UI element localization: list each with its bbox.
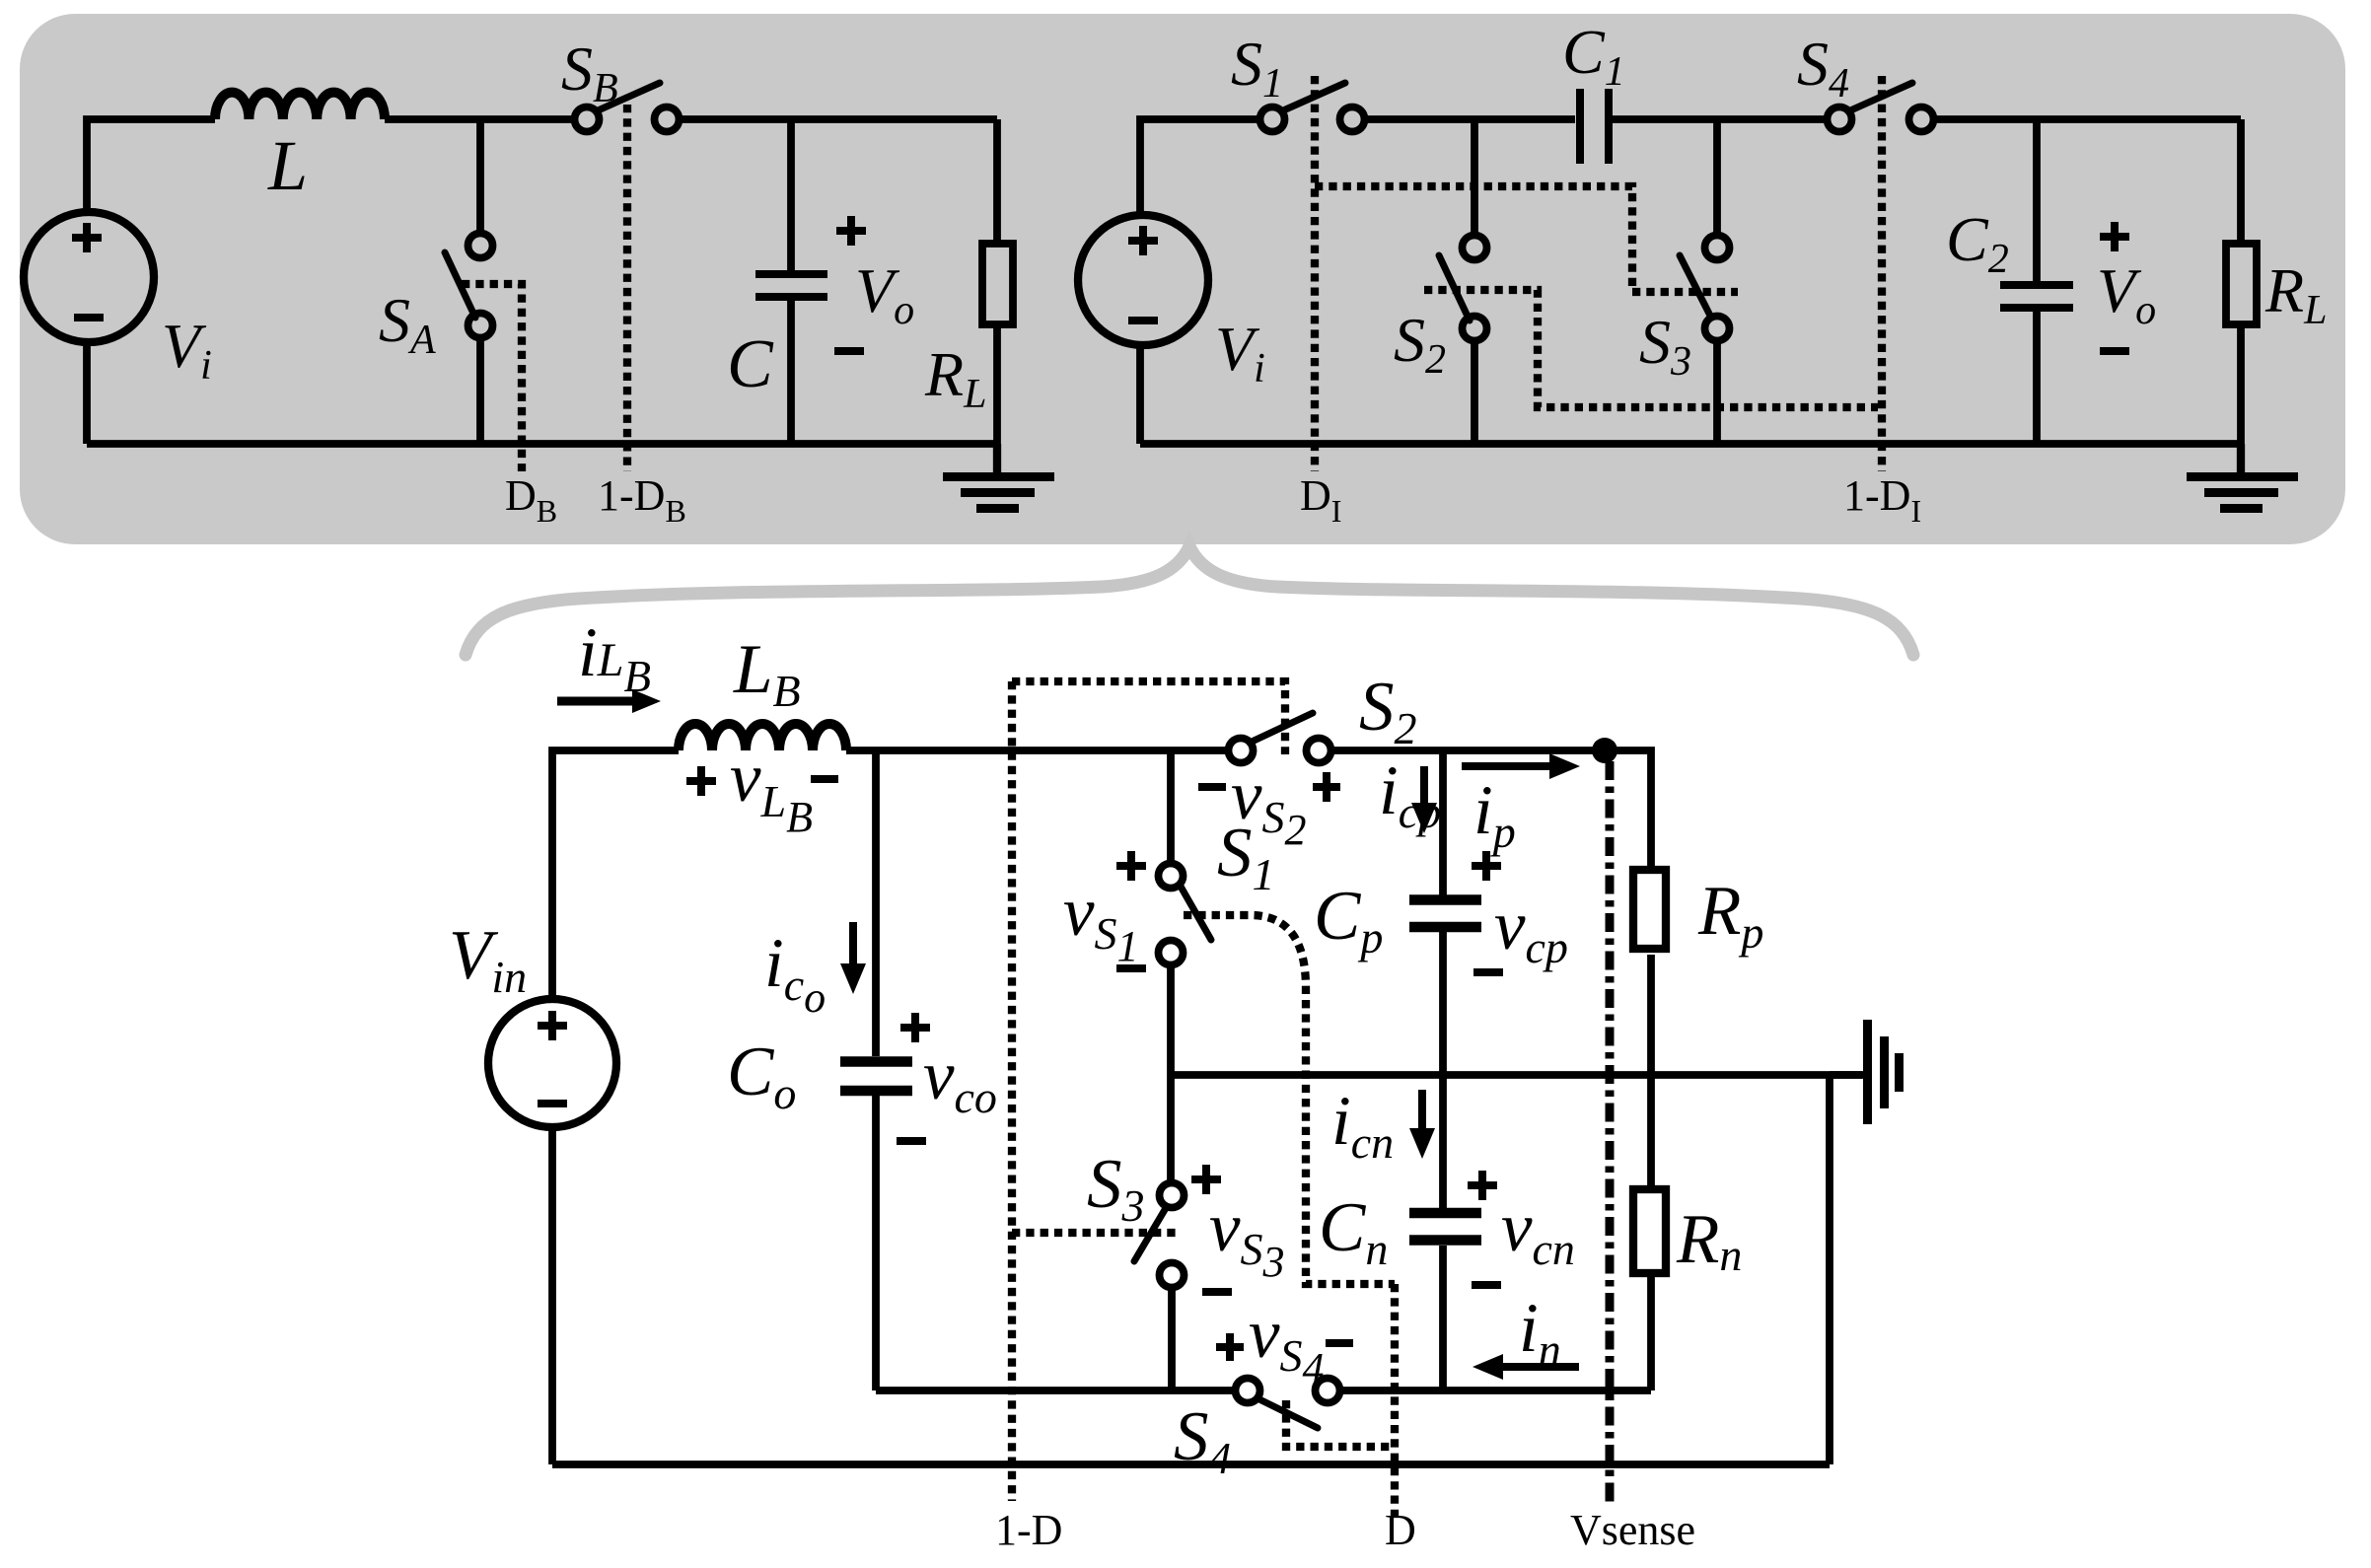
resistor RL right <box>2226 119 2257 444</box>
minus Vo left <box>834 347 864 355</box>
ground bottom circuit <box>1830 1020 1904 1124</box>
voltage source Vin <box>488 999 616 1127</box>
switch S1 bottom <box>1159 864 1212 965</box>
wire Cp branch top <box>1439 750 1447 895</box>
capacitor C2 <box>2000 285 2073 308</box>
svg-text:ico: ico <box>764 925 826 1022</box>
wire S1 branch top <box>1167 750 1175 863</box>
wire C2 branch bottom <box>2033 312 2041 444</box>
svg-text:ip: ip <box>1473 772 1516 857</box>
label -vS2+ <box>1198 757 1340 854</box>
svg-text:LB: LB <box>733 631 801 716</box>
dotted line 1-DB <box>623 105 631 471</box>
brace <box>466 546 1913 655</box>
wire S2 branch top <box>1471 119 1478 235</box>
switch S4 <box>1828 83 1934 132</box>
minus vS3 <box>1202 1288 1232 1296</box>
svg-text:Rn: Rn <box>1676 1201 1742 1280</box>
wire Cn branch top <box>1439 1075 1447 1209</box>
svg-text:in: in <box>1519 1290 1561 1375</box>
minus Vo right <box>2100 347 2129 355</box>
svg-text:Rp: Rp <box>1697 873 1763 958</box>
capacitor Co <box>840 1062 912 1092</box>
wire C branch top <box>787 119 795 270</box>
wire top LB to S2 <box>846 747 1229 754</box>
capacitor C1 <box>1580 89 1609 164</box>
svg-text:S2: S2 <box>1359 669 1417 753</box>
switch S3 <box>1680 236 1730 341</box>
svg-text:vco: vco <box>923 1037 997 1122</box>
arrow ip <box>1462 753 1580 779</box>
dotted control DB <box>462 284 522 471</box>
wire right source loop <box>1140 119 1260 444</box>
wire SB to RL <box>681 115 997 123</box>
svg-text:Vsense: Vsense <box>1570 1506 1695 1554</box>
minus vS1 <box>1116 964 1146 972</box>
inductor LB <box>679 724 846 750</box>
svg-text:icp: icp <box>1379 752 1441 837</box>
switch S2 <box>1439 236 1487 341</box>
wire Co branch bottom <box>872 1095 880 1390</box>
wire Vin left loop <box>552 750 679 1464</box>
svg-text:Vin: Vin <box>449 917 527 1002</box>
resistor Rn <box>1633 1075 1666 1390</box>
dotted S3 control <box>1012 1229 1180 1237</box>
plus vLB <box>686 766 716 796</box>
dotted control S2 path <box>1424 290 1878 407</box>
switch S2 bottom <box>1229 713 1331 763</box>
svg-text:L: L <box>267 126 308 205</box>
svg-text:D: D <box>1385 1506 1416 1554</box>
wire Co branch top <box>872 750 880 1056</box>
wire S3 branch top <box>1713 119 1721 235</box>
dotted line D <box>1391 1284 1399 1519</box>
minus vLB <box>811 775 838 783</box>
dotted line DI <box>1311 76 1319 471</box>
capacitor Cn <box>1409 1213 1481 1241</box>
capacitor Cp <box>1409 900 1481 928</box>
wire inductor to SB <box>385 115 573 123</box>
gray panel <box>20 14 2345 544</box>
wire S4 to RL right <box>1934 115 2241 123</box>
plus vcn <box>1468 1171 1497 1200</box>
voltage source Vi right <box>1078 215 1208 345</box>
switch S4 bottom <box>1236 1379 1340 1429</box>
bottom wire left circuit <box>87 440 997 448</box>
dotted S4 control <box>1286 1400 1395 1447</box>
wire Cn branch bottom <box>1439 1246 1447 1390</box>
wire Cp branch bottom <box>1439 932 1447 1075</box>
svg-text:Co: Co <box>727 1033 796 1118</box>
wire left loop <box>87 119 215 444</box>
arrow icn <box>1409 1090 1435 1159</box>
dashdot Vsense <box>1606 761 1615 1503</box>
dotted line 1-DI <box>1878 76 1886 471</box>
svg-text:vLB: vLB <box>730 740 813 841</box>
minus vco <box>897 1137 926 1145</box>
wire S2 to corner <box>1330 750 1651 866</box>
wire C1 to S4 <box>1612 115 1828 123</box>
mid wire <box>1171 1071 1862 1079</box>
plus vcp <box>1472 851 1501 881</box>
dotted line 1-D <box>1008 681 1016 1501</box>
inductor L <box>215 93 385 119</box>
wire C2 branch top <box>2033 119 2041 281</box>
label +vS4- <box>1216 1296 1353 1392</box>
wire bottom row <box>876 1387 1651 1394</box>
svg-text:C: C <box>727 326 774 402</box>
plus Vo left <box>836 216 866 246</box>
wire right loop <box>552 1075 1830 1464</box>
plus vS1 <box>1116 851 1146 881</box>
wire S3 branch bottom <box>1713 342 1721 444</box>
plus Vo right <box>2100 222 2129 251</box>
svg-text:S4: S4 <box>1174 1398 1232 1483</box>
bottom wire right circuit <box>1140 440 2241 448</box>
wire S2 branch bottom <box>1471 342 1478 444</box>
arrow icp <box>1411 766 1437 833</box>
plus vS3 <box>1191 1165 1221 1194</box>
svg-text:Cn: Cn <box>1319 1189 1388 1274</box>
wire SA branch <box>476 119 484 444</box>
svg-text:1-D: 1-D <box>995 1506 1062 1554</box>
svg-text:vS3: vS3 <box>1209 1189 1285 1286</box>
ground left circuit <box>943 444 1054 513</box>
switch S3 bottom <box>1134 1183 1185 1288</box>
svg-text:vS4: vS4 <box>1249 1296 1325 1392</box>
svg-text:S3: S3 <box>1087 1146 1145 1231</box>
switch SB <box>575 83 680 132</box>
switch S1 <box>1260 83 1365 132</box>
wire S1 to C1 <box>1365 115 1575 123</box>
wire S1 to S3 vertical <box>1167 964 1175 1183</box>
capacitor C <box>755 274 827 297</box>
wire C branch bottom <box>787 301 795 444</box>
arrow iLB <box>557 689 661 713</box>
dotted 1-D box <box>1012 681 1285 754</box>
plus vco <box>900 1013 930 1042</box>
wire S3 bottom to row <box>1168 1287 1176 1390</box>
junction dot <box>1592 738 1617 763</box>
dotted S1 control path <box>1184 915 1395 1284</box>
ground right circuit <box>2187 444 2298 513</box>
resistor RL left <box>982 119 1013 444</box>
svg-text:vS1: vS1 <box>1063 874 1139 970</box>
arrow in <box>1473 1354 1579 1380</box>
svg-text:Cp: Cp <box>1314 878 1383 962</box>
switch SA <box>445 234 493 338</box>
svg-text:vcn: vcn <box>1501 1189 1575 1274</box>
svg-text:icn: icn <box>1331 1083 1394 1168</box>
voltage source Vi <box>24 212 154 342</box>
resistor Rp <box>1633 870 1666 1075</box>
svg-text:iLB: iLB <box>578 614 651 701</box>
minus vcn <box>1472 1281 1501 1289</box>
arrow ico <box>840 922 866 994</box>
minus vcp <box>1473 968 1503 976</box>
svg-text:vcp: vcp <box>1494 888 1568 972</box>
dotted control S3 path <box>1315 186 1738 292</box>
